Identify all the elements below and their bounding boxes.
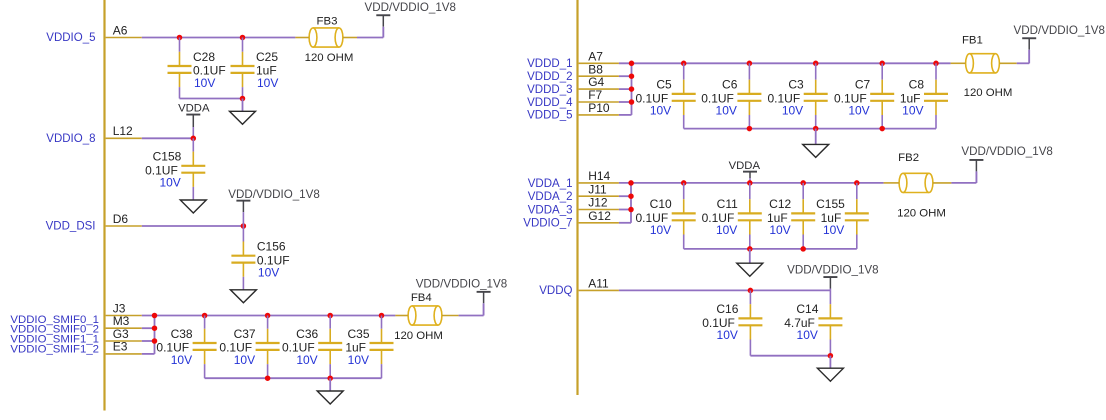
svg-text:FB4: FB4: [411, 292, 432, 304]
junction C37 top: [265, 313, 271, 319]
capacitor C8 1uF 10V: [900, 63, 948, 128]
pin A7: [579, 49, 619, 63]
right device bus: [576, 0, 578, 395]
ground (under C11): [737, 263, 763, 276]
svg-text:VDD/VDDIO_1V8: VDD/VDDIO_1V8: [961, 145, 1053, 158]
junction cap top x=803.2 (VDDA): [800, 180, 806, 186]
svg-text:VDDA_2: VDDA_2: [528, 191, 573, 203]
pin A6: [106, 23, 142, 37]
label FB4: [411, 292, 432, 304]
svg-text:10V: 10V: [902, 104, 923, 118]
svg-text:10V: 10V: [348, 353, 369, 367]
wire E3 stub: [142, 353, 155, 355]
svg-text:A6: A6: [113, 23, 128, 37]
svg-text:C7: C7: [855, 78, 871, 92]
svg-text:FB2: FB2: [898, 152, 919, 164]
FB1 left pin: [951, 62, 966, 64]
label FB2: [898, 152, 919, 164]
wire to ground under C11: [749, 249, 751, 263]
junction cap top x=683.7: [681, 61, 687, 67]
capacitor C158 0.1UF 10V: [145, 138, 205, 200]
wire VDDQ bottom link: [750, 355, 830, 357]
junction D6/power/C156: [241, 223, 247, 229]
svg-text:10V: 10V: [257, 76, 278, 90]
net label VDDD_5: [527, 110, 572, 122]
svg-text:10V: 10V: [848, 104, 869, 118]
wire G4 stub: [619, 88, 632, 90]
pin P10: [579, 101, 619, 115]
value 120 OHM (FB1): [964, 87, 1013, 99]
svg-text:VDDA_1: VDDA_1: [528, 178, 573, 190]
svg-text:10V: 10V: [782, 104, 803, 118]
left device bus: [103, 0, 105, 411]
wire FB2 to power: [951, 182, 976, 184]
junction C6 bottom: [747, 126, 753, 132]
capacitor C25 1uF 10V: [231, 38, 279, 99]
capacitor C35 1uF 10V: [345, 316, 393, 379]
power symbol VDD/VDDIO_1V8 (FB4): [416, 277, 508, 315]
junction cap top x=882.2: [879, 61, 885, 67]
FB2 right pin: [933, 182, 952, 184]
wire FB3 to power: [357, 37, 383, 39]
capacitor C6 0.1UF 10V: [701, 63, 761, 128]
capacitor C36 0.1UF 10V: [282, 316, 342, 379]
svg-text:VDD/VDDIO_1V8: VDD/VDDIO_1V8: [787, 263, 879, 276]
wire P10 stub: [619, 114, 632, 116]
svg-text:C155: C155: [816, 197, 845, 211]
wire VDDD main net: [619, 62, 951, 64]
junction C3 bottom: [813, 126, 819, 132]
junction C11 bottom: [747, 246, 753, 252]
svg-text:VDD/VDDIO_1V8: VDD/VDDIO_1V8: [416, 277, 508, 290]
wire FB4 to power: [459, 315, 484, 317]
junction cap top x=749.4: [747, 61, 753, 67]
svg-text:VDD/VDDIO_1V8: VDD/VDDIO_1V8: [228, 188, 319, 201]
svg-text:10V: 10V: [234, 353, 255, 367]
svg-text:F7: F7: [588, 88, 602, 102]
value 120 OHM (FB2): [897, 208, 946, 220]
svg-text:C14: C14: [796, 302, 818, 316]
net label VDDIO_8: [46, 133, 95, 145]
capacitor C5 0.1UF 10V: [636, 63, 696, 128]
power symbol VDD/VDDIO_1V8 (VDDQ): [787, 263, 879, 290]
junction J12 tie: [628, 207, 634, 213]
junction VDDD tie 102.0: [629, 99, 635, 105]
svg-text:120 OHM: 120 OHM: [964, 87, 1013, 99]
wire VDDD tie vertical: [631, 63, 633, 115]
wire SMIF bottom bus: [205, 377, 382, 379]
junction cap top x=856.8 (VDDA): [854, 180, 860, 186]
net label VDDD_4: [527, 97, 573, 109]
junction VDDD tie 76.2: [629, 73, 635, 79]
svg-text:E3: E3: [113, 340, 128, 354]
power symbol VDD/VDDIO_1V8 (D6): [228, 188, 319, 226]
svg-text:C12: C12: [769, 197, 791, 211]
FB2 left pin: [884, 182, 900, 184]
svg-text:10V: 10V: [823, 223, 844, 237]
svg-text:C35: C35: [347, 327, 369, 341]
net label VDDA_3: [528, 204, 573, 216]
wire G12 stub: [619, 222, 631, 224]
capacitor C155 1uF 10V: [816, 183, 869, 249]
junction C36 top: [327, 313, 333, 319]
capacitor C12 1uF 10V: [767, 183, 815, 249]
svg-text:10V: 10V: [296, 353, 317, 367]
capacitor C10 0.1UF 10V: [636, 183, 696, 249]
junction C25 bottom: [240, 96, 246, 102]
label FB3: [317, 16, 338, 28]
pin J11: [579, 182, 619, 196]
svg-text:VDDD_5: VDDD_5: [527, 110, 572, 122]
svg-text:10V: 10V: [194, 76, 215, 90]
wire J12 stub: [619, 209, 631, 211]
svg-text:C38: C38: [171, 327, 193, 341]
svg-text:120 OHM: 120 OHM: [394, 330, 443, 342]
wire VDDIO_5 net: [142, 37, 296, 39]
ferrite bead FB2: [899, 173, 933, 192]
junction C37 bottom: [265, 375, 271, 381]
svg-text:C3: C3: [788, 78, 804, 92]
svg-text:VDDD_3: VDDD_3: [527, 84, 572, 96]
svg-text:C156: C156: [257, 240, 286, 254]
svg-text:C158: C158: [153, 150, 182, 164]
net label VDDIO_SMIF0_2: [10, 324, 99, 336]
wire VDDIO_8 net: [142, 137, 194, 139]
junction C28 top: [177, 35, 183, 41]
pin L12: [106, 124, 142, 138]
pin B8: [579, 62, 619, 76]
junction cap top x=936.0: [933, 61, 939, 67]
svg-text:10V: 10V: [716, 104, 737, 118]
svg-text:C6: C6: [722, 78, 738, 92]
net label VDDIO_SMIF1_2: [10, 343, 99, 355]
svg-text:C10: C10: [650, 197, 672, 211]
svg-text:J11: J11: [588, 182, 607, 196]
capacitor C37 0.1UF 10V: [219, 316, 279, 379]
junction C38 top: [202, 313, 208, 319]
svg-text:10V: 10V: [797, 328, 818, 342]
svg-text:VDDIO_SMIF1_2: VDDIO_SMIF1_2: [10, 343, 99, 355]
svg-text:10V: 10V: [717, 328, 738, 342]
capacitor C3 0.1UF 10V: [768, 63, 828, 128]
pin F7: [579, 88, 619, 102]
ferrite bead FB1: [966, 54, 1000, 73]
wire up to VDD/VDDIO_1V8: [382, 27, 384, 38]
pin G12: [579, 209, 619, 223]
svg-text:VDDQ: VDDQ: [539, 285, 572, 297]
pin G4: [579, 75, 619, 89]
FB4 right pin: [442, 315, 459, 317]
net label VDDIO_SMIF0_1: [10, 314, 99, 326]
capacitor C16 0.1UF 10V: [702, 290, 762, 355]
svg-text:C8: C8: [909, 78, 925, 92]
power symbol VDDA (right): [729, 160, 761, 183]
junction C25 top: [240, 35, 246, 41]
wire up to power (FB4): [483, 304, 485, 316]
svg-text:G12: G12: [588, 209, 611, 223]
capacitor C14 4.7uF 10V: [784, 290, 842, 355]
pin H14: [579, 169, 619, 183]
svg-text:VDDIO_8: VDDIO_8: [46, 133, 95, 145]
ground (under C158): [180, 200, 206, 213]
svg-text:G3: G3: [113, 327, 129, 341]
ferrite bead FB3: [309, 28, 343, 47]
wire to ground under C3: [815, 129, 817, 145]
pin E3: [106, 340, 142, 354]
svg-text:D6: D6: [113, 212, 129, 226]
wire FB1 to power: [1017, 62, 1029, 64]
svg-text:B8: B8: [588, 62, 603, 76]
net label VDDD_2: [527, 71, 572, 83]
svg-text:P10: P10: [588, 101, 610, 115]
power symbol VDDA (left): [178, 103, 210, 139]
wire J11 stub: [619, 195, 631, 197]
label FB1: [962, 35, 983, 47]
net label VDDD_3: [527, 84, 572, 96]
pin G3: [106, 327, 142, 341]
svg-text:VDDD_1: VDDD_1: [527, 58, 572, 70]
power symbol VDD/VDDIO_1V8 (FB1): [1014, 24, 1106, 63]
svg-text:C25: C25: [256, 50, 278, 64]
wire to ground under C14: [829, 356, 831, 369]
capacitor C28 0.1UF 10V: [168, 38, 226, 99]
capacitor C156 0.1UF 10V: [231, 226, 289, 290]
ground (under C25): [230, 111, 256, 124]
junction cap top x=749.8 (VDDA): [747, 180, 753, 186]
pin J3: [106, 301, 142, 315]
wire G3 stub: [142, 340, 155, 342]
wire VDDQ net: [619, 289, 831, 291]
junction C35/FB4: [379, 313, 385, 319]
wire VDD_DSI net: [142, 225, 244, 227]
capacitor C7 0.1UF 10V: [834, 63, 894, 128]
svg-text:VDD/VDDIO_1V8: VDD/VDDIO_1V8: [365, 1, 457, 14]
junction VDDD tie 63.3: [629, 61, 635, 67]
wire F7 stub: [619, 101, 632, 103]
junction C16 top: [748, 288, 754, 294]
svg-text:10V: 10V: [258, 266, 279, 280]
junction cap top x=683.7 (VDDA): [681, 180, 687, 186]
junction L12/VDDA/C158: [191, 136, 197, 142]
net label VDDA_1: [528, 178, 573, 190]
junction cap top x=815.7: [813, 61, 819, 67]
svg-text:120 OHM: 120 OHM: [305, 52, 354, 64]
wire to ground under C25: [242, 99, 244, 112]
junction C36 bottom: [327, 375, 333, 381]
net label VDD_DSI: [46, 221, 96, 233]
ground (under C156): [230, 290, 256, 303]
svg-text:10V: 10V: [171, 353, 192, 367]
svg-text:VDDA_3: VDDA_3: [528, 204, 573, 216]
pin D6: [106, 212, 142, 226]
pin J12: [579, 196, 619, 210]
pin A11: [579, 276, 619, 290]
svg-text:VDDD_2: VDDD_2: [527, 71, 572, 83]
svg-text:C36: C36: [296, 327, 318, 341]
junction VDDD tie 89.1: [629, 86, 635, 92]
FB3 left pin: [295, 37, 309, 39]
svg-text:C37: C37: [234, 327, 256, 341]
svg-text:VDDD_4: VDDD_4: [527, 97, 573, 109]
svg-text:120 OHM: 120 OHM: [897, 208, 946, 220]
svg-text:VDDIO_5: VDDIO_5: [46, 32, 95, 44]
svg-text:10V: 10V: [650, 223, 671, 237]
junction H14 tie: [628, 180, 634, 186]
svg-text:10V: 10V: [769, 223, 790, 237]
wire VDDA bottom bus: [684, 248, 857, 250]
svg-text:G4: G4: [588, 75, 604, 89]
FB1 right pin: [999, 62, 1016, 64]
junction C12 bottom: [800, 246, 806, 252]
power symbol VDD/VDDIO_1V8 (FB2): [961, 145, 1053, 183]
wire VDDA main net: [619, 182, 884, 184]
svg-text:VDDIO_7: VDDIO_7: [523, 218, 572, 230]
capacitor C11 0.1UF 10V: [702, 183, 762, 249]
svg-text:VDD/VDDIO_1V8: VDD/VDDIO_1V8: [1014, 24, 1106, 37]
junction G3 tie: [152, 338, 158, 344]
wire up to power (FB2): [975, 172, 977, 183]
svg-text:10V: 10V: [159, 176, 180, 190]
pin M3: [106, 314, 142, 328]
net label VDDIO_7: [523, 218, 572, 230]
svg-text:A7: A7: [588, 49, 603, 63]
svg-text:C5: C5: [656, 78, 672, 92]
svg-text:VDD_DSI: VDD_DSI: [46, 221, 96, 233]
net label VDDD_1: [527, 58, 572, 70]
wire C28-C25 bottom link: [180, 98, 243, 100]
ground (under C3): [803, 144, 829, 157]
svg-text:C28: C28: [193, 50, 215, 64]
ground (under C14): [817, 368, 843, 381]
ground (under C36): [317, 391, 343, 404]
value 120 OHM (FB4): [394, 330, 443, 342]
svg-text:J12: J12: [588, 196, 608, 210]
wire up to power (FB1): [1028, 50, 1030, 63]
wire to ground under C36: [329, 378, 331, 391]
ferrite bead FB4: [408, 306, 442, 325]
svg-text:FB3: FB3: [317, 16, 338, 28]
junction C14 bottom: [828, 353, 834, 359]
net label VDDIO_SMIF1_1: [10, 334, 99, 346]
wire SMIF main net: [142, 315, 396, 317]
wire VDDA tie vertical: [630, 183, 632, 223]
net label VDDA_2: [528, 191, 573, 203]
power symbol VDD/VDDIO_1V8 (FB3): [365, 1, 457, 38]
wire VDDD bottom bus: [684, 128, 936, 130]
wire M3 stub: [142, 327, 155, 329]
svg-text:A11: A11: [588, 276, 609, 290]
svg-text:C16: C16: [716, 302, 738, 316]
capacitor C38 0.1UF 10V: [156, 316, 216, 379]
wire B8 stub: [619, 75, 632, 77]
svg-text:C11: C11: [717, 197, 738, 211]
svg-text:VDDA: VDDA: [729, 160, 761, 172]
junction M3 tie: [152, 325, 158, 331]
junction J11 tie: [628, 193, 634, 199]
svg-text:10V: 10V: [716, 223, 737, 237]
svg-text:FB1: FB1: [962, 35, 983, 47]
FB3 right pin: [343, 37, 357, 39]
junction J3 tie: [152, 313, 158, 319]
junction C7 bottom: [879, 126, 885, 132]
svg-text:L12: L12: [113, 124, 133, 138]
wire SMIF tie vertical: [154, 316, 156, 354]
svg-text:VDDA: VDDA: [178, 103, 210, 115]
svg-text:10V: 10V: [650, 104, 671, 118]
value 120 OHM (FB3): [305, 52, 354, 64]
svg-text:H14: H14: [588, 169, 610, 183]
net label VDDQ: [539, 285, 572, 297]
FB4 left pin: [395, 315, 408, 317]
net label VDDIO_5: [46, 32, 95, 44]
